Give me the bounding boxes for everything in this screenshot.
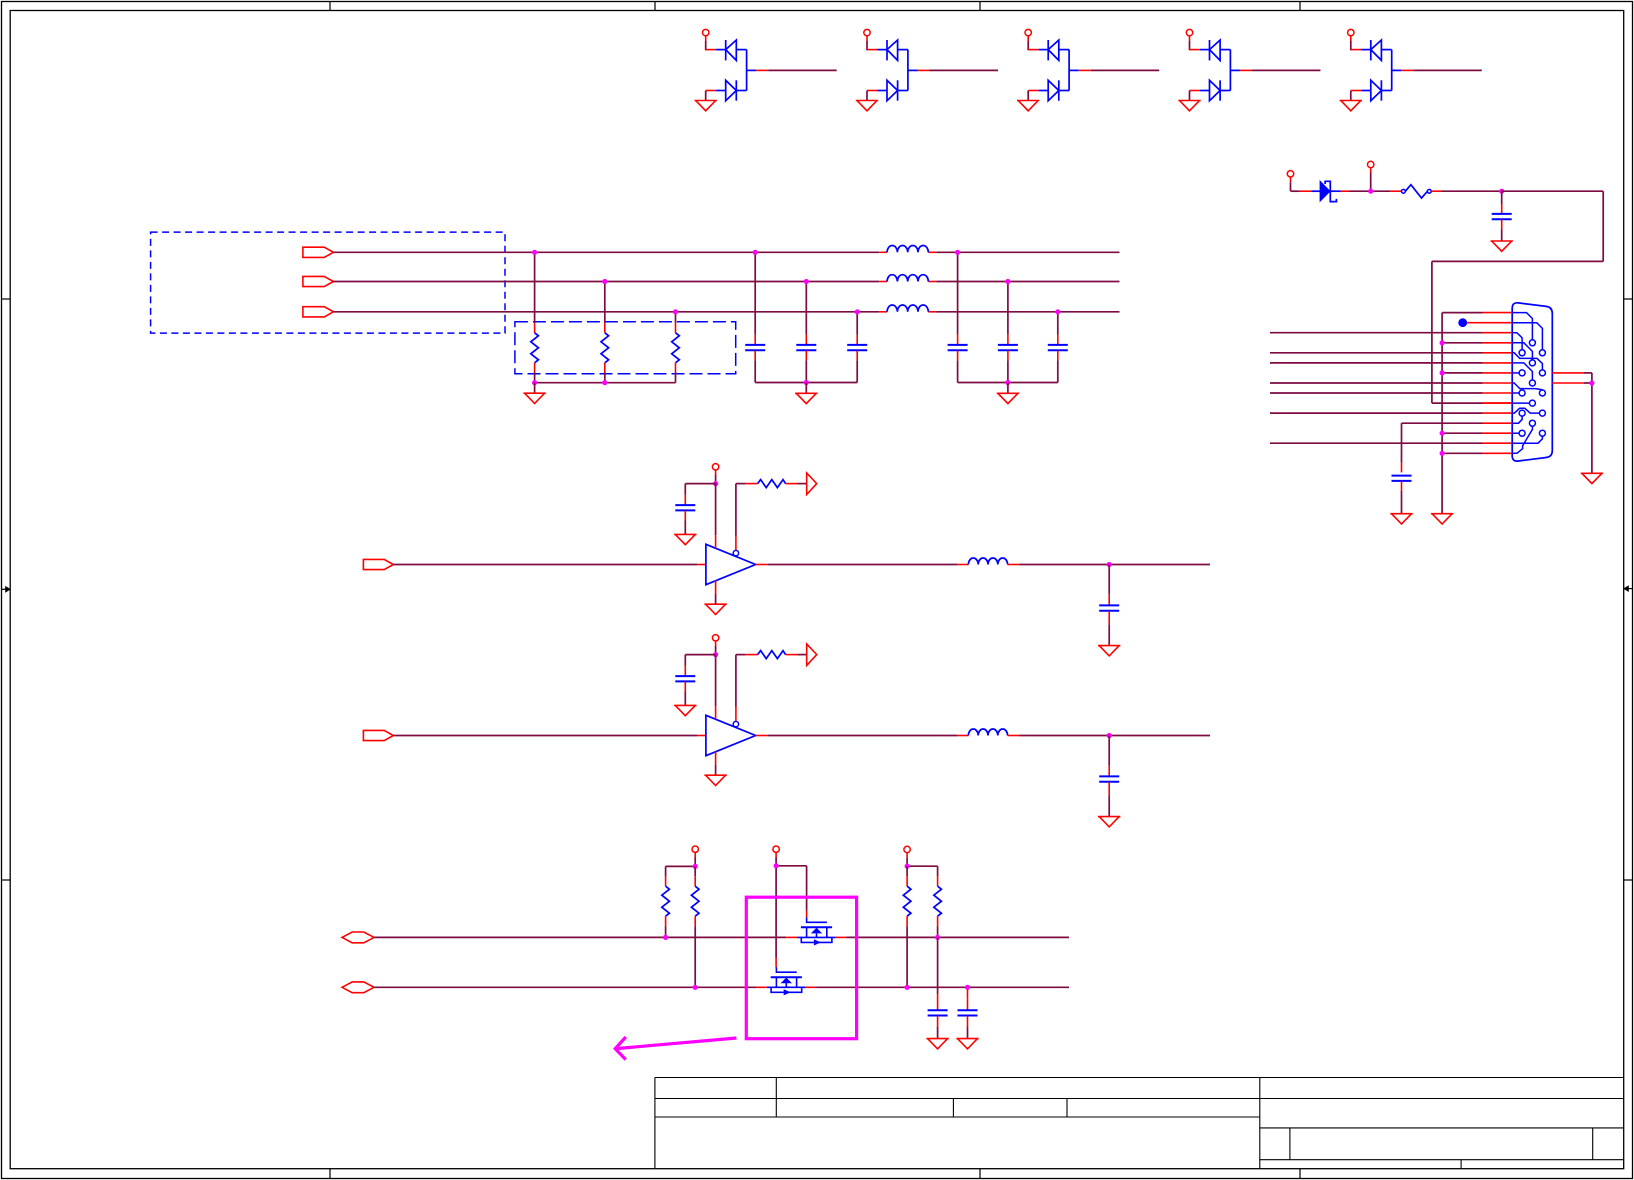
wire D1 common cathode node bbox=[747, 50, 837, 91]
resistor RE2 bbox=[758, 651, 786, 659]
transistor Q1 bbox=[786, 917, 846, 945]
output pin OUT2 bbox=[807, 644, 817, 666]
wire cap bank 2 ground bus bbox=[958, 382, 1058, 384]
power pin circle P4 bbox=[1287, 171, 1293, 177]
ESD diode pair D2 power pin bbox=[864, 29, 870, 35]
wire D5 power pin to anode bbox=[1351, 36, 1361, 51]
output pin OUT1 bbox=[807, 473, 817, 495]
wire U2 power to decoupling cap bbox=[685, 655, 715, 676]
resistor R1 bbox=[531, 252, 539, 382]
highlight arrow (magenta) bbox=[615, 1037, 736, 1060]
input pin P1 bbox=[303, 247, 334, 257]
wire line B bbox=[374, 986, 1069, 988]
connector J2 internal traces bbox=[1512, 313, 1542, 454]
ground (U2) bbox=[704, 774, 726, 776]
diode D2B (to ground) bbox=[867, 80, 908, 100]
ground (cap C7) bbox=[926, 1038, 948, 1040]
wire D3 power pin to anode bbox=[1028, 36, 1038, 51]
diode D4B (to ground) bbox=[1190, 80, 1231, 100]
power pin circle U1 bbox=[712, 464, 718, 470]
diode D5B (to ground) bbox=[1351, 80, 1392, 100]
junction node output 1 bbox=[1107, 562, 1112, 567]
wire ground net vertical at connector bbox=[1442, 313, 1482, 514]
ground (cap CO2) bbox=[1098, 816, 1120, 818]
capacitor C5 bbox=[998, 282, 1018, 383]
fuse F1 bbox=[1402, 185, 1432, 198]
ground (cap CJ1) bbox=[1390, 513, 1412, 515]
wire power net loop to connector bbox=[1432, 191, 1603, 403]
ground (cap bank 2) bbox=[997, 383, 1019, 404]
wire P4 to zener bbox=[1291, 177, 1312, 191]
wire D2 power pin to anode bbox=[867, 36, 877, 51]
capacitor C4 bbox=[948, 252, 968, 382]
wire RE1 to output pin bbox=[786, 483, 807, 485]
wire U1 enable net bbox=[736, 484, 758, 550]
wire D5 common cathode node bbox=[1392, 50, 1482, 91]
wire U2 ground pin bbox=[715, 752, 717, 776]
ground (cap CO1) bbox=[1098, 645, 1120, 647]
power pin circle G1 bbox=[692, 846, 698, 852]
junction node output 2 bbox=[1107, 733, 1112, 738]
wire U1 power node bbox=[715, 470, 717, 484]
resistor RE1 bbox=[758, 480, 786, 488]
capacitor CO2 bbox=[1099, 736, 1119, 817]
junction node C5 top bbox=[1005, 279, 1010, 284]
capacitor C8 bbox=[958, 987, 978, 1038]
capacitor CF1 bbox=[1492, 191, 1512, 241]
junction node G3 bbox=[905, 864, 910, 869]
wire to fuse bbox=[1390, 190, 1401, 192]
wire P5 drop bbox=[1370, 168, 1372, 192]
ground (connector right) bbox=[1581, 472, 1603, 474]
no-connect blue node pin 2 bbox=[1458, 318, 1482, 327]
junction node zener-fuse bbox=[1368, 189, 1373, 194]
wire cap CB1 to ground bbox=[684, 511, 686, 535]
junction node C6 top bbox=[1055, 309, 1060, 314]
junction node gnd r13 bbox=[1440, 431, 1445, 436]
junction node C3 top bbox=[855, 309, 860, 314]
diode D2A (to supply) bbox=[877, 40, 908, 60]
wire cap CB2 to ground bbox=[684, 682, 686, 706]
wire resistor ground bus bbox=[535, 382, 676, 384]
resistor R6 bbox=[903, 866, 911, 987]
wire U2 output bbox=[756, 735, 969, 737]
wire D2 common cathode node bbox=[908, 50, 998, 91]
junction node R5 line B bbox=[693, 985, 698, 990]
junction node bus1-b bbox=[602, 380, 607, 385]
diode D3B (to ground) bbox=[1028, 80, 1069, 100]
connector J2 shell bbox=[1512, 303, 1552, 461]
junction node gnd r4 bbox=[1440, 340, 1445, 345]
junction node U1 power bbox=[713, 481, 718, 486]
junction node right gnd bbox=[1589, 380, 1594, 385]
wire input to buffer U2 bbox=[393, 735, 706, 737]
junction node C1 top bbox=[753, 250, 758, 255]
diode D4A (to supply) bbox=[1200, 40, 1231, 60]
buffer U2 bbox=[706, 715, 756, 755]
ground below D4 bbox=[1178, 91, 1200, 111]
ground (cap bank 1) bbox=[795, 383, 817, 404]
input pin IN2 bbox=[363, 730, 393, 740]
wire line 3 (net L3) bbox=[334, 311, 1120, 313]
junction node U2 power bbox=[713, 652, 718, 657]
ground (cap CB1) bbox=[674, 533, 696, 535]
wire G2 gates bbox=[776, 852, 807, 967]
ground (U1) bbox=[704, 603, 726, 605]
input pin IN1 bbox=[363, 559, 393, 569]
buffer U1 bbox=[706, 544, 756, 584]
junction node R6 line B bbox=[905, 985, 910, 990]
net stub lines from left bbox=[1270, 333, 1483, 444]
ground (cap CF1) bbox=[1491, 240, 1513, 242]
inductor LO1 bbox=[968, 558, 1007, 564]
resistor R2 bbox=[601, 282, 609, 383]
wire D1 power pin to anode bbox=[706, 36, 716, 51]
wire G1 top bbox=[666, 852, 696, 866]
power pin circle P5 bbox=[1368, 161, 1374, 167]
capacitor CB1 bbox=[675, 504, 695, 506]
ESD diode pair D4 power pin bbox=[1186, 29, 1192, 35]
wire U1 ground pin bbox=[715, 581, 717, 605]
wire fuse to filter cap node bbox=[1431, 190, 1502, 192]
wire RE2 to output pin bbox=[786, 654, 807, 656]
ground below D3 bbox=[1017, 91, 1039, 111]
inductor L3 bbox=[887, 305, 928, 312]
junction node bus2 bbox=[804, 380, 809, 385]
ground (cap CB2) bbox=[674, 704, 696, 706]
zener diode DZ1 bbox=[1311, 181, 1349, 201]
ground (connector gnd net) bbox=[1431, 513, 1453, 515]
bidirectional pin PB bbox=[342, 982, 374, 993]
junction node R4 line A bbox=[663, 935, 668, 940]
junction node bus3 bbox=[1005, 380, 1010, 385]
junction node gnd r7 bbox=[1440, 370, 1445, 375]
ESD diode pair D1 power pin bbox=[703, 29, 709, 35]
junction node R7 line A bbox=[935, 935, 940, 940]
capacitor C3 bbox=[847, 312, 867, 383]
junction node gnd r15 bbox=[1440, 451, 1445, 456]
wire line A bbox=[374, 936, 1069, 938]
capacitor C1 bbox=[745, 252, 765, 382]
input pin P2 bbox=[303, 276, 334, 286]
connector J2 pin stubs bbox=[1483, 313, 1513, 454]
capacitor CB2 bbox=[675, 675, 695, 677]
inductor L1 bbox=[887, 246, 928, 253]
capacitor C2 bbox=[796, 282, 816, 383]
inductor LO2 bbox=[968, 729, 1007, 735]
wire U2 enable net bbox=[736, 655, 758, 721]
input pin P3 bbox=[303, 307, 334, 317]
power pin circle G2 bbox=[773, 846, 779, 852]
junction node R1 top bbox=[532, 250, 537, 255]
power pin circle U2 bbox=[712, 635, 718, 641]
wire cap bank 1 ground bus bbox=[755, 382, 857, 384]
connector J2 pin holes bbox=[1519, 340, 1545, 436]
resistor R3 bbox=[672, 312, 680, 383]
wire line 2 (net L2) bbox=[334, 281, 1120, 283]
ESD diode pair D3 power pin bbox=[1025, 29, 1031, 35]
highlight box (magenta) bbox=[746, 897, 856, 1038]
wire input to buffer U1 bbox=[393, 564, 706, 566]
dashed box (resistor group) bbox=[515, 322, 736, 374]
junction node G1 bbox=[693, 864, 698, 869]
wire LO2 to line end bbox=[1008, 735, 1210, 737]
capacitor CO1 bbox=[1099, 565, 1119, 646]
junction node fuse cap bbox=[1499, 189, 1504, 194]
ground below D1 bbox=[695, 91, 717, 111]
capacitor CJ1 on pin 12 net bbox=[1392, 423, 1483, 513]
wire LO1 to line end bbox=[1008, 564, 1210, 566]
junction node C8 line B bbox=[965, 985, 970, 990]
diode D5A (to supply) bbox=[1361, 40, 1392, 60]
wire U1 power pin stub bbox=[715, 484, 717, 548]
wire D3 common cathode node bbox=[1069, 50, 1159, 91]
ground below D2 bbox=[856, 91, 878, 111]
diode D1B (to ground) bbox=[706, 80, 747, 100]
junction node C2 top bbox=[804, 279, 809, 284]
resistor R4 bbox=[662, 866, 670, 937]
wire line 1 (net L1) bbox=[334, 251, 1120, 253]
wire G3 top bbox=[907, 853, 938, 867]
dashed box (connector group) bbox=[151, 232, 505, 333]
ground (cap C8) bbox=[956, 1038, 978, 1040]
diode D3A (to supply) bbox=[1039, 40, 1070, 60]
wire D4 common cathode node bbox=[1230, 50, 1320, 91]
diode D1A (to supply) bbox=[716, 40, 747, 60]
wire connector right-side pins to ground bbox=[1552, 373, 1592, 473]
wire U1 output bbox=[756, 564, 969, 566]
capacitor C7 bbox=[928, 937, 948, 1038]
junction node R3 top bbox=[673, 309, 678, 314]
resistor R7 bbox=[934, 866, 942, 937]
junction node C4 top bbox=[955, 250, 960, 255]
bidirectional pin PA bbox=[342, 932, 374, 943]
junction node R2 top bbox=[602, 279, 607, 284]
ESD diode pair D5 power pin bbox=[1348, 29, 1354, 35]
junction node G2 bbox=[774, 863, 779, 868]
power pin circle G3 bbox=[904, 846, 910, 852]
wire zener to fuse node bbox=[1350, 190, 1391, 192]
inductor L2 bbox=[887, 275, 928, 282]
wire U1 power to decoupling cap bbox=[685, 484, 715, 505]
resistor R5 bbox=[691, 866, 699, 987]
wire U2 power pin stub bbox=[715, 655, 717, 720]
title block bbox=[655, 1078, 1624, 1169]
junction node bus1-a bbox=[532, 380, 537, 385]
wire U2 power node bbox=[715, 641, 717, 655]
ground below D5 bbox=[1340, 91, 1362, 111]
ground (resistor bus) bbox=[523, 383, 545, 404]
wire D4 power pin to anode bbox=[1190, 36, 1200, 51]
transistor Q2 bbox=[756, 967, 816, 995]
capacitor C6 bbox=[1048, 312, 1068, 383]
